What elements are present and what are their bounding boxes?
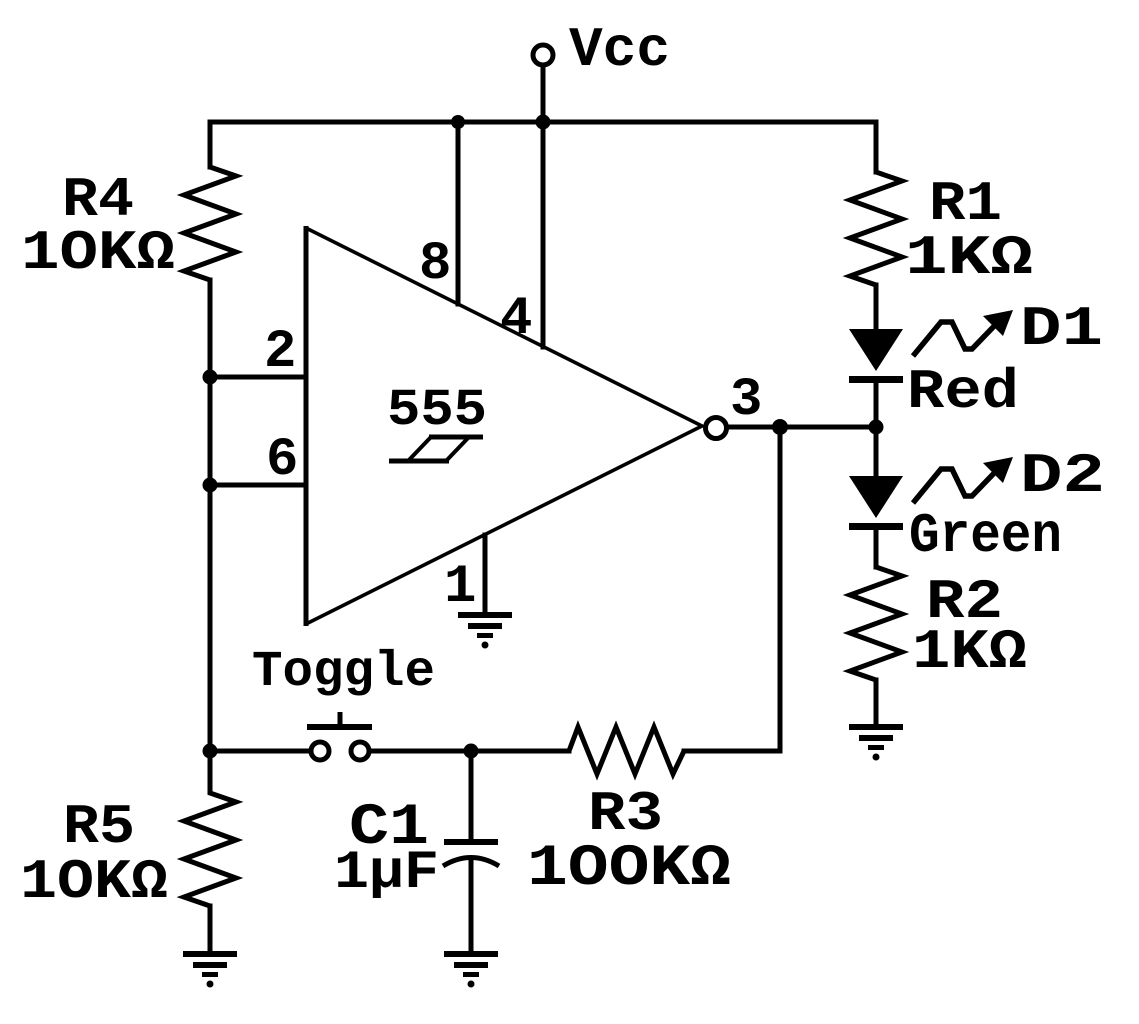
wire pin 6 [210,483,306,488]
resistor R3 [527,727,731,902]
svg-text:1: 1 [444,557,476,618]
wire bottom rail right [684,749,780,754]
resistor R4 [21,167,236,285]
wire left rail lower [208,280,213,751]
svg-text:1KΩ: 1KΩ [905,226,1033,290]
junction top rail / pin 8 [451,115,465,129]
wire right rail upper [874,122,879,172]
wire bottom rail middle [372,749,569,754]
resistor R5 [20,751,236,914]
junction bottom left [203,744,218,759]
svg-text:4: 4 [500,289,532,350]
wire bottom rail left [210,749,308,754]
junction C1 [464,744,479,759]
svg-text:1μF: 1μF [334,843,439,904]
resistor R1 [850,172,1033,290]
hysteresis symbol inside 555 [389,437,483,461]
wire R2 to ground [874,680,879,725]
junction LED node [869,420,884,435]
wire R5 to ground [208,906,213,952]
svg-text:1OKΩ: 1OKΩ [21,221,175,285]
svg-text:D1: D1 [1020,297,1103,361]
svg-text:3: 3 [730,370,762,431]
svg-text:555: 555 [387,381,487,440]
wire pin 8 vertical [456,122,461,304]
svg-text:Vcc: Vcc [569,18,670,82]
svg-text:Green: Green [909,504,1062,568]
svg-text:Red: Red [907,360,1019,424]
LED D1 Red [849,297,1103,424]
wire pin 3 output [727,425,876,430]
pushbutton switch Toggle [307,712,372,760]
svg-text:8: 8 [419,234,451,295]
wire top rail [210,120,876,125]
ground R5 [183,951,237,988]
LED D2 Green [849,444,1105,568]
wire Vcc stub down to top rail and pin 4 [541,66,546,347]
junction pin 2 [203,370,218,385]
wire output down to feedback rail [778,427,783,751]
junction top rail / Vcc [536,115,551,130]
svg-text:2: 2 [264,322,296,383]
op-amp U1 555 timer triangle [306,226,702,626]
svg-text:1OKΩ: 1OKΩ [20,850,168,914]
output bubble pin 3 [706,418,727,439]
wire pin 2 [210,375,306,380]
resistor R2 [850,567,1027,684]
ground C1 [444,951,498,988]
wire junction to D2 [874,427,879,479]
junction pin 6 [203,478,218,493]
capacitor C1 [334,751,499,904]
svg-text:6: 6 [266,430,298,491]
wire D2 to R2 [874,529,879,567]
wire pin 1 [483,535,488,615]
ground pin 1 [458,612,512,649]
power terminal Vcc [533,18,670,82]
svg-text:1OOKΩ: 1OOKΩ [527,837,731,902]
wire left rail upper [208,122,213,167]
svg-text:1KΩ: 1KΩ [912,620,1027,684]
svg-text:Toggle: Toggle [252,644,435,701]
wire D1 to junction [874,382,879,427]
ground R2 [849,724,903,761]
wire C1 to ground [469,858,474,952]
svg-text:D2: D2 [1020,444,1105,508]
junction output node [772,419,788,435]
wire R1 to D1 [874,285,879,332]
